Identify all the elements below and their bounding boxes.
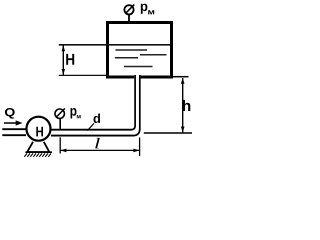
dimension h bottom extension bbox=[144, 132, 192, 134]
water dash 4 bbox=[124, 66, 153, 68]
water dash 2 bbox=[140, 54, 167, 56]
vertical pipe from tank bbox=[131, 75, 140, 136]
label p (tank gauge) bbox=[141, 4, 148, 14]
dimension l right extension bbox=[139, 138, 141, 157]
suction pipe (left of pump) bbox=[2, 129, 26, 135]
gauge G2 (pump manometer) bbox=[55, 108, 65, 129]
dimension H extension (bottom) bbox=[59, 74, 106, 76]
dimension h top extension bbox=[173, 76, 189, 78]
flow arrow bbox=[4, 120, 23, 125]
label d with leader bbox=[87, 114, 100, 131]
gauge G1 (tank manometer) bbox=[124, 5, 134, 22]
pump P1 bbox=[27, 117, 51, 141]
tank T1 bbox=[108, 23, 172, 79]
label m subscript (tank gauge) bbox=[148, 10, 154, 14]
support hatching bbox=[24, 153, 51, 156]
dimension h line with arrows bbox=[181, 78, 185, 133]
label h (dimension) bbox=[183, 100, 191, 111]
pump support bbox=[25, 142, 52, 152]
dimension l line with arrows bbox=[60, 149, 139, 153]
label m subscript (pump gauge) bbox=[77, 115, 81, 118]
dimension l left extension bbox=[59, 137, 61, 153]
water surface line bbox=[59, 44, 170, 46]
water dash 1 bbox=[116, 49, 148, 51]
dimension H line with arrows bbox=[62, 45, 65, 75]
label l (dimension) bbox=[95, 138, 100, 149]
label H (dimension) bbox=[66, 54, 74, 65]
label Q bbox=[5, 108, 15, 119]
horizontal pipe (pump discharge) bbox=[51, 130, 133, 136]
label p (pump gauge) bbox=[71, 108, 77, 119]
label H (pump) bbox=[36, 127, 43, 137]
water dash 3 bbox=[115, 57, 138, 59]
